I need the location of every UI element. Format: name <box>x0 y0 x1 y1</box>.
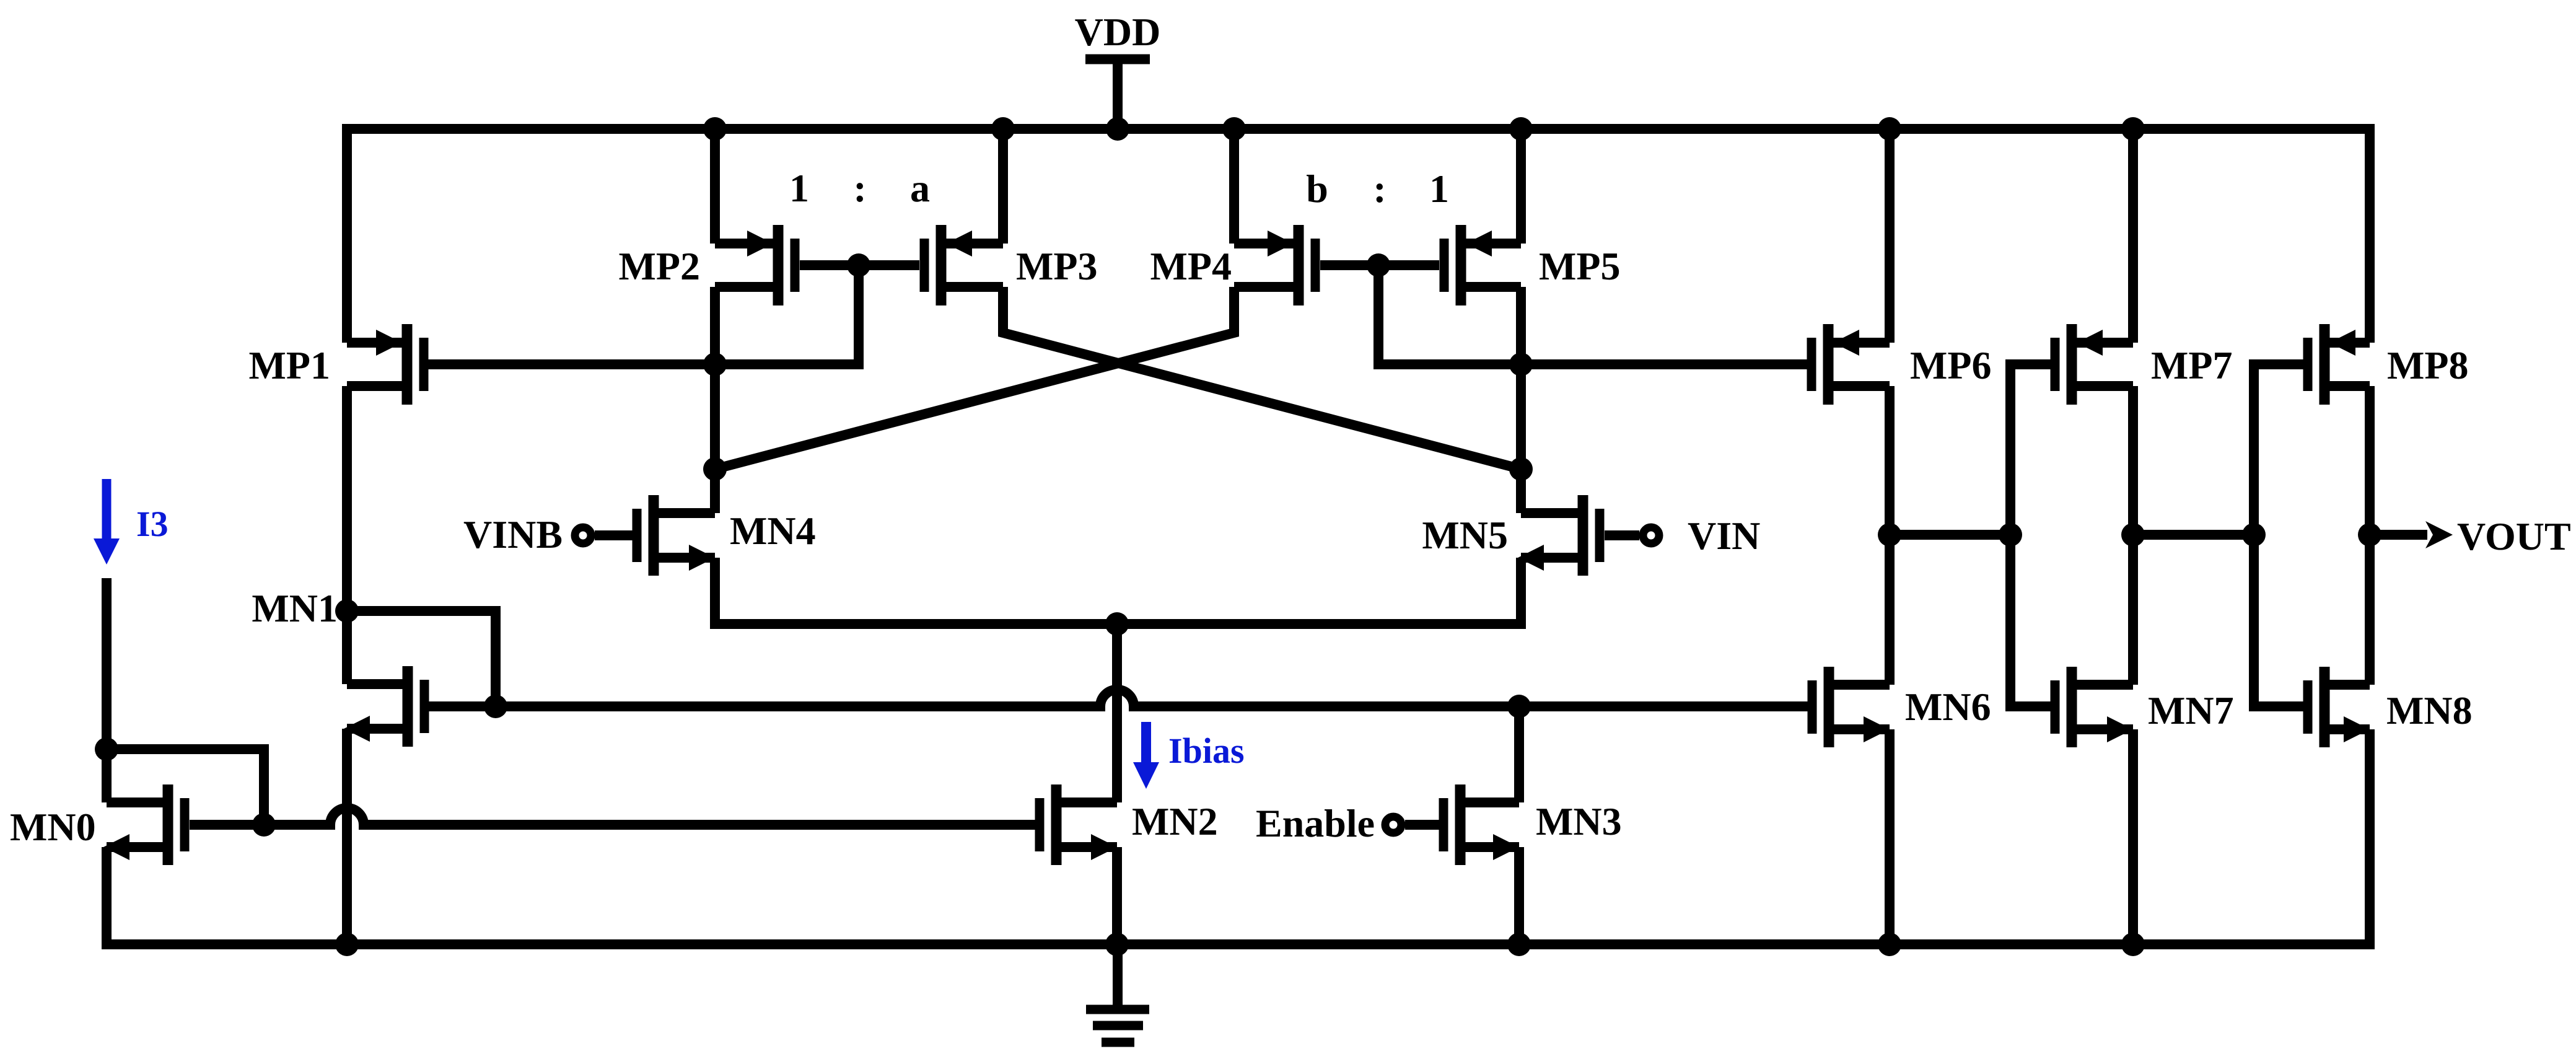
input terminal Enable <box>1385 817 1401 833</box>
wire: MP5 drain vertical down to MN5 drain <box>1516 287 1526 513</box>
wire: second stage output node link <box>2133 530 2254 540</box>
svg-text:MN3: MN3 <box>1536 799 1622 843</box>
junction: ground rail at MN7 source <box>2121 933 2145 956</box>
junction: MN3 drain on bias line <box>1507 695 1531 718</box>
svg-text:MP2: MP2 <box>619 244 701 288</box>
junction: rail at MP6 source <box>1878 117 1901 141</box>
junction: tail node <box>1105 612 1129 636</box>
junction: ground rail at MN3 source <box>1507 933 1531 956</box>
junction: MP5 drain / MP6 gate node <box>1509 353 1533 376</box>
wire: MP2-MP3 gate tie <box>800 260 919 270</box>
wire: MP8/MN8 gate stub <box>2254 364 2303 706</box>
svg-text:MP8: MP8 <box>2387 343 2469 387</box>
junction: MN1 gate node <box>484 695 507 718</box>
svg-text:MP3: MP3 <box>1016 244 1098 288</box>
wire: MN1 source down to ground rail (passes under hop) <box>342 729 352 944</box>
wire: MP2 source vertical from rail <box>710 129 720 244</box>
transistor MP7 (PMOS, mirrored) <box>2055 324 2133 405</box>
input terminal VINB <box>575 527 591 543</box>
transistor MN4 (NMOS) <box>595 495 715 576</box>
svg-text:MN1: MN1 <box>252 586 338 630</box>
svg-text:MP1: MP1 <box>249 343 331 387</box>
transistor MP8 (PMOS, mirrored) <box>2308 324 2370 405</box>
wire: I3 vertical down to MN0 drain <box>102 578 112 802</box>
junction: MP2 drain / MP1 gate <box>703 353 727 376</box>
junction: MP7 drain node <box>2121 523 2145 547</box>
wire: MP7/MN7 drain vertical <box>2128 386 2138 685</box>
wire: MN1 diode loop up and left to MP1 drain <box>347 611 496 706</box>
current arrow I3 <box>94 479 120 565</box>
junction: MP6 drain node <box>1878 523 1901 547</box>
wire: MN2 source down to ground rail <box>1112 847 1122 944</box>
wire: MP7 source vertical from rail <box>2128 129 2138 343</box>
VDD supply symbol <box>1085 59 1150 130</box>
transistor MN5 (NMOS, mirrored) <box>1518 495 1639 576</box>
svg-text:MN2: MN2 <box>1132 799 1218 843</box>
svg-text:MP5: MP5 <box>1539 244 1621 288</box>
svg-text:MN7: MN7 <box>2148 688 2234 732</box>
svg-text:MP6: MP6 <box>1910 343 1992 387</box>
transistor MP6 (PMOS, mirrored) <box>1812 324 1890 405</box>
svg-text:I3: I3 <box>136 504 169 544</box>
junction: rail at MP7 source <box>2121 117 2145 141</box>
output arrow VOUT <box>2370 521 2453 548</box>
wire: MN0/MN2 gate line with hop over MN1 source <box>264 820 335 830</box>
wire: MN3 source down to ground rail <box>1514 847 1524 944</box>
wire: MN3 drain vertical up to bias line <box>1514 707 1524 802</box>
junction: VOUT node <box>2358 523 2381 547</box>
svg-text:VINB: VINB <box>463 512 563 556</box>
transistor MN8 (NMOS) <box>2308 667 2370 747</box>
junction: rail at MP2 source <box>703 117 727 141</box>
ground symbol <box>1086 944 1149 1042</box>
junction: MN0 drain diode node <box>95 737 118 761</box>
transistor MP1 (PMOS) <box>347 324 424 405</box>
wire: MP1 gate line to MP2/MP3 gate node <box>428 265 859 364</box>
wire: MP4 source vertical from rail <box>1229 129 1239 244</box>
junction: rail at MP3 source <box>991 117 1015 141</box>
svg-text:MN5: MN5 <box>1422 513 1508 557</box>
svg-text:MN6: MN6 <box>1905 685 1991 729</box>
svg-text:MN0: MN0 <box>10 805 96 849</box>
wire: VDD top rail with left and right end drops <box>347 129 2370 343</box>
transistor MN7 (NMOS) <box>2055 667 2133 747</box>
wire: MP1 drain vertical down to MN1 drain <box>342 386 352 684</box>
wire: MN0 diode loop right and down <box>107 749 264 825</box>
transistor MP3 (PMOS, mirrored) <box>924 225 1003 305</box>
wire: MP5 source vertical from rail <box>1516 129 1526 244</box>
svg-text:a: a <box>910 166 930 210</box>
svg-text:MP4: MP4 <box>1150 244 1232 288</box>
transistor MN0 (NMOS, mirrored) <box>103 784 264 865</box>
current arrow Ibias <box>1133 722 1159 789</box>
junction: MP7 gate stub node <box>1999 523 2022 547</box>
svg-text:1: 1 <box>1429 167 1449 211</box>
svg-text:1: 1 <box>789 166 809 210</box>
wire: tail vertical down to MN2 drain <box>1112 624 1122 802</box>
junction: MP8 gate stub node <box>2242 523 2266 547</box>
junction: MN4 drain node <box>703 457 727 481</box>
transistor MN3 (NMOS) <box>1405 784 1519 865</box>
wire: MP5 diode link down and right <box>1378 265 1521 364</box>
svg-text:b: b <box>1306 167 1328 211</box>
junction: MN0 gate node <box>252 813 276 837</box>
wire: MP6 source vertical from rail <box>1885 129 1895 343</box>
junction: MN5 drain node <box>1509 457 1533 481</box>
junction: ground rail at MN1 source <box>335 933 359 956</box>
svg-text:MP7: MP7 <box>2151 343 2233 387</box>
svg-text:VDD: VDD <box>1075 10 1161 54</box>
transistor MP4 (PMOS) <box>1234 225 1315 305</box>
wire: MP5 drain to MP6 gate <box>1521 359 1807 369</box>
svg-text:MN4: MN4 <box>730 509 816 553</box>
wire: MP2 drain node down to MN4 drain node <box>710 364 720 469</box>
wire: MN6 source down to ground rail <box>1885 729 1895 944</box>
wire: NMOS bias line from MN1 gate to MN6 gate with hop over tail <box>429 701 1105 711</box>
svg-text:VIN: VIN <box>1688 514 1760 558</box>
wire: ground rail with MN0 and MN8 source drops <box>107 729 2370 944</box>
wire: first stage output node link <box>1890 530 2010 540</box>
wire: MP3 source vertical from rail <box>998 129 1008 244</box>
svg-text::: : <box>1373 167 1386 211</box>
transistor MN1 (NMOS, mirrored) <box>344 666 424 747</box>
junction: ground rail at MN2 source <box>1105 933 1129 956</box>
svg-text:VOUT: VOUT <box>2457 514 2571 558</box>
wire: MP3 drain elbow and cross-coupling diagonal to MN5 drain <box>1003 287 1521 469</box>
junction: rail at MP5 source <box>1509 117 1533 141</box>
wire: differential pair common source line <box>715 558 1521 624</box>
wire: MP7/MN7 gate stub <box>2010 364 2051 706</box>
wire: MP6/MN6 drain vertical <box>1885 386 1895 685</box>
transistor MP2 (PMOS) <box>715 225 795 305</box>
wire: MN7 source down to ground rail <box>2128 729 2138 944</box>
transistor MN2 (NMOS) <box>1040 784 1117 865</box>
wire: MP4 drain elbow and cross-coupling diagonal to MN4 drain <box>715 287 1234 469</box>
junction: rail at VDD stem <box>1106 117 1129 141</box>
wire: MP4-MP5 gate tie <box>1320 260 1439 270</box>
transistor MP5 (PMOS, mirrored) <box>1444 225 1521 305</box>
wire: MP2 drain vertical (diode) <box>710 287 720 364</box>
wire: MN4 drain elbow <box>710 469 720 513</box>
junction: MP1 drain / MN1 gate loop <box>335 599 359 623</box>
junction: MP2/MP3 gate node <box>847 253 870 277</box>
svg-text:Enable: Enable <box>1256 801 1375 845</box>
junction: rail at MP4 source <box>1222 117 1246 141</box>
junction: MP4/MP5 gate node <box>1367 253 1390 277</box>
input terminal VIN <box>1643 527 1659 543</box>
svg-text::: : <box>853 166 866 210</box>
wire: MP8/MN8 drain vertical <box>2365 386 2375 685</box>
svg-text:MN8: MN8 <box>2386 688 2473 732</box>
transistor MN6 (NMOS) <box>1812 667 1890 747</box>
svg-text:Ibias: Ibias <box>1168 731 1245 771</box>
junction: ground rail at MN6 source <box>1878 933 1901 956</box>
